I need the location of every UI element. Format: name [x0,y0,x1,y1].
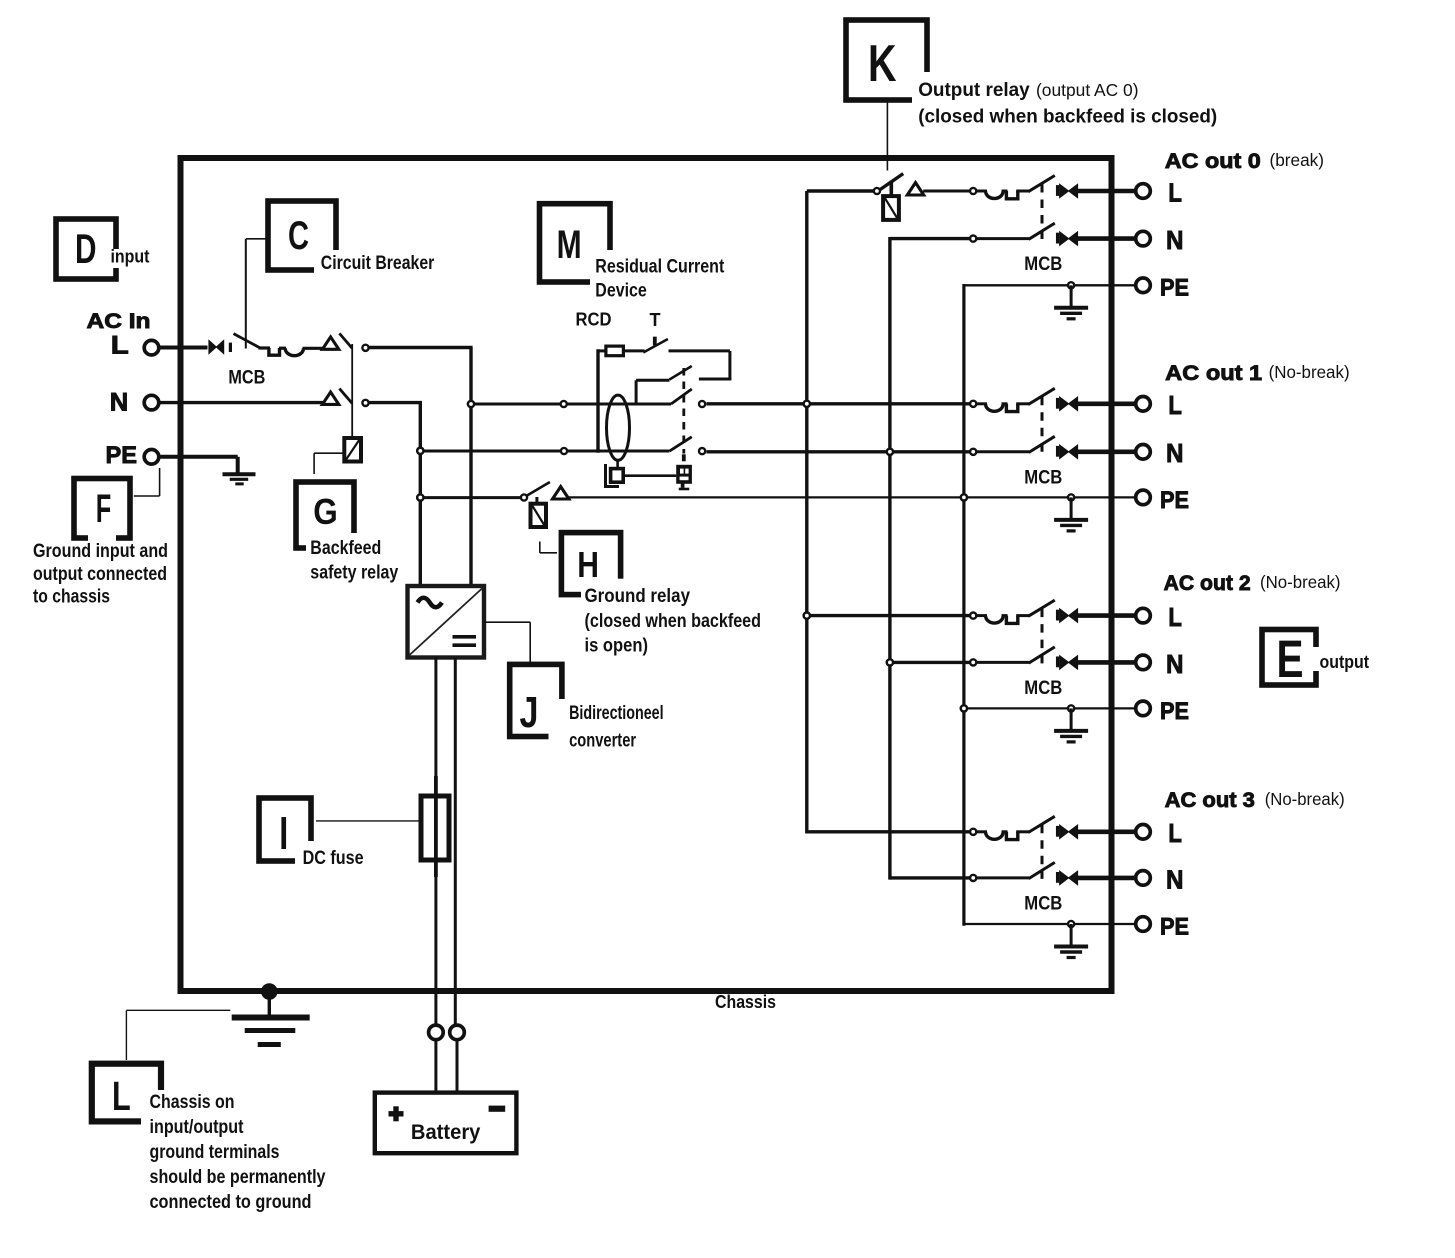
terminal AC out 1 N [1136,445,1151,460]
terminal AC out 3 N [1136,871,1151,886]
callout box E (output) [1262,630,1316,686]
MCB AC out 3 N pole [970,875,976,881]
callout box G (backfeed safety relay) [296,482,354,548]
wire AC-in L terminal to MCB [158,346,208,350]
ground relay triangle [553,487,569,499]
wire battery leads [434,1040,437,1093]
node ground relay pivot [521,494,527,500]
terminal AC out 3 L [1136,825,1151,840]
svg-text:Ground input and: Ground input and [33,540,168,562]
terminal AC out 0 PE [1136,278,1151,293]
wire L drop to converter [469,348,472,587]
terminal AC out 1 L [1136,397,1151,412]
svg-text:AC out 3: AC out 3 [1165,788,1255,812]
svg-text:L: L [1168,602,1182,632]
RCD test button tick [653,337,657,346]
RCD sense element stem [616,460,619,470]
RCD trip solenoid tick top [682,454,686,461]
terminal AC out 2 N [1136,655,1151,670]
callout box J (bidirectional converter) [510,664,562,736]
wire N MCB to down-corner [368,401,422,404]
svg-text:PE: PE [106,442,138,469]
RCD trip solenoid foot [681,483,685,488]
svg-text:AC out 1: AC out 1 [1165,361,1262,385]
svg-text:MCB: MCB [1024,253,1062,275]
terminal AC out 0 N [1136,231,1151,246]
battery box [375,1093,517,1154]
junction L bus / AC out 2 [804,613,810,619]
PE output bus [962,284,965,926]
RCD test resistor [606,346,624,356]
wire RCD L row to contact [471,403,671,406]
junction L drop / RCD feed [468,401,474,407]
battery minus sign [489,1106,506,1112]
node AC out 2 PE earth tap [1068,705,1074,711]
wire L arc to triangle [279,347,286,350]
leader line box K to relay [886,100,888,171]
leader line coil to box H [539,542,541,553]
terminal AC out 0 L [1136,184,1151,199]
battery terminal circle positive [429,1025,444,1040]
svg-text:Residual Current: Residual Current [595,257,725,278]
relay K triangle [907,183,923,195]
svg-text:(No-break): (No-break) [1269,362,1350,382]
wire AC out 2 N feed [890,661,971,664]
MCB input N switch blade [339,389,352,404]
wire DC negative converter to battery [454,658,457,1026]
MCB input mechanical link to backfeed relay [351,344,353,438]
junction L bus / AC out 1 [804,401,810,407]
callout box F (ground input/output to chassis) [74,479,130,539]
backfeed relay coil [344,438,361,462]
MCB AC out 0 L pole [970,188,976,194]
svg-text:Circuit Breaker: Circuit Breaker [321,253,435,274]
svg-text:RCD: RCD [576,310,612,330]
node AC out 1 PE earth tap [1068,494,1074,500]
node RCD N output [699,448,705,454]
svg-text:G: G [313,491,338,532]
svg-text:L: L [1168,818,1182,848]
RCD mechanical trip link (dashed) [682,368,685,454]
chassis earth stem [268,992,271,1018]
L output bus [805,191,808,834]
terminal AC out 2 PE [1136,701,1151,716]
junction node L bus / AC out 2 row [804,613,810,619]
svg-text:Output relay: Output relay [918,80,1030,101]
svg-text:converter: converter [569,731,636,752]
svg-text:L: L [112,1073,131,1119]
junction PE bus / AC out 1 [961,494,967,500]
MCB input isolator bowtie on L [209,340,224,353]
wire AC out 2 PE feed [964,707,1135,709]
terminal PE input [144,450,159,465]
MCB AC out 1 L pole [970,401,976,407]
svg-text:H: H [577,544,599,585]
wire AC-in PE terminal [158,455,238,459]
terminal AC out 3 PE [1136,917,1151,932]
MCB AC out 2 L pole [970,613,976,619]
svg-text:E: E [1277,630,1304,689]
junction node N drop / RCD N row [417,448,423,454]
leader line PE to box F [159,468,161,496]
leader line box L to chassis earth [126,1009,230,1011]
MCB input bowtie end bar [229,343,232,352]
chassis earth symbol [232,1015,310,1021]
svg-text:DC fuse: DC fuse [303,848,364,869]
DC fuse body [434,776,438,877]
ground symbol at PE input [223,472,256,476]
svg-text:L: L [111,332,129,360]
wire AC-in N terminal to MCB [158,401,325,404]
wire AC out 2 L feed [807,614,971,617]
wire ground relay row from N drop [420,496,521,499]
junction node PE bus / AC out 1 row [961,494,967,500]
wire AC out 1 L feed [707,402,972,405]
junction N drop / ground relay feed [417,495,423,501]
MCB AC out 1 N pole [970,449,976,455]
earth symbol AC out 3 [1070,924,1073,946]
leader line coil to box G [314,452,343,454]
svg-text:Bidirectioneel: Bidirectioneel [569,703,664,724]
svg-text:AC out 0: AC out 0 [1165,149,1261,173]
junction node N bus / AC out 1 row [887,449,893,455]
svg-text:(No-break): (No-break) [1260,572,1341,592]
junction on RCD L row [561,401,567,407]
earth symbol AC out 0 [1070,285,1073,307]
svg-text:PE: PE [1160,913,1189,940]
wire PE net ground relay to PE bus [569,496,1135,498]
junction N bus / AC out 1 [887,449,893,455]
wire L bus corner to relay K [807,189,874,192]
MCB input L switch blade [234,334,261,349]
ground relay coil [531,504,547,527]
svg-text:input/output: input/output [150,1116,244,1138]
wire relay K to AC0 MCB [923,190,970,193]
leader line box I to fuse [316,820,419,822]
battery plus sign [389,1111,404,1116]
RCD auxiliary contact blade [670,366,692,380]
wire RCD N row to contact [420,450,669,453]
node AC out 0 PE earth tap [1068,282,1074,288]
svg-text:connected to ground: connected to ground [150,1191,312,1213]
callout box C (circuit breaker) [268,201,336,270]
svg-text:Ground relay: Ground relay [585,586,691,607]
svg-text:output connected: output connected [33,563,167,585]
svg-text:N: N [1166,864,1184,894]
wire N drop to converter [419,403,422,586]
svg-text:MCB: MCB [1024,892,1062,914]
RCD sense toroid [607,395,630,460]
terminal L input [144,340,159,355]
terminal N input [144,395,159,410]
svg-text:T: T [650,310,661,330]
junction N drop / RCD N feed [417,448,423,454]
junction N bus / AC out 2 [887,659,893,665]
callout box L (chassis grounding note) [92,1064,161,1122]
svg-text:Chassis on: Chassis on [150,1091,235,1113]
svg-text:input: input [111,247,150,267]
svg-text:MCB: MCB [1024,677,1062,699]
chassis ground bonding dot [262,984,278,1000]
wire L between notch segments [259,346,271,349]
MCB AC out 2 mechanical link (dashed) [1041,609,1044,664]
svg-text:MCB: MCB [1024,466,1062,488]
relay K armature bar [890,182,894,197]
RCD sense element bracket [606,464,620,487]
svg-text:L: L [1168,390,1182,420]
wire sense element to trip solenoid [623,474,676,477]
RCD auxiliary contact stub [636,379,669,382]
svg-text:(closed when backfeed: (closed when backfeed [585,611,762,632]
wire AC out 0 N feed [890,237,971,240]
battery terminal circle negative [450,1025,465,1040]
svg-text:N: N [1166,225,1184,255]
RCD sense element box [611,469,624,483]
svg-text:should be permanently: should be permanently [150,1166,326,1188]
wire AC out 0 PE feed [964,284,1135,286]
svg-text:N: N [1166,649,1184,679]
MCB input triangle on N [322,392,338,404]
node RCD L output [699,401,705,407]
MCB input magnetic coil arc on L [285,348,303,355]
MCB AC out 0 N pole [970,236,976,242]
terminal AC out 2 L [1136,608,1151,623]
RCD main contact blade N [670,437,692,451]
junction node N bus / AC out 2 row [887,659,893,665]
earth symbol AC out 1 [1070,497,1073,519]
svg-text:to chassis: to chassis [33,586,110,608]
N output bus [888,237,891,880]
svg-text:(output AC 0): (output AC 0) [1036,80,1139,100]
junction on RCD N row [561,448,567,454]
junction node PE bus / AC out 2 row [961,705,967,711]
svg-text:is open): is open) [585,636,649,657]
node N after input MCB [362,400,368,406]
callout box K (output relay) [846,20,927,100]
RCD trip solenoid body [676,465,692,484]
bidirectional converter box [408,586,485,658]
wire AC out 3 L feed [807,830,971,833]
svg-text:C: C [288,214,309,258]
svg-text:MCB: MCB [228,367,265,389]
MCB AC out 0 mechanical link (dashed) [1041,184,1044,240]
junction node N drop / ground relay row [417,494,423,500]
wire AC out 3 PE feed [964,923,1135,925]
relay K coil [883,196,899,220]
junction PE bus / AC out 2 [961,705,967,711]
chassis enclosure box [181,158,1112,991]
callout box I (DC fuse) [259,798,311,861]
relay K blade [880,174,903,190]
terminal AC out 1 PE [1136,490,1151,505]
junction node L drop / RCD L row [468,401,474,407]
svg-text:N: N [110,389,129,417]
svg-text:M: M [557,223,582,267]
svg-text:K: K [868,35,897,93]
svg-text:safety relay: safety relay [310,563,398,584]
svg-text:Device: Device [595,281,647,302]
svg-text:ground terminals: ground terminals [150,1141,280,1163]
MCB input L second blade [339,333,352,348]
svg-text:Chassis: Chassis [715,991,776,1012]
svg-text:Battery: Battery [411,1121,481,1144]
svg-text:(No-break): (No-break) [1265,789,1345,809]
svg-text:output: output [1320,652,1370,672]
earth symbol AC out 2 [1070,708,1073,730]
svg-text:Backfeed: Backfeed [310,538,381,559]
wire resistor to test switch [623,349,644,352]
wire DC positive converter to battery [434,658,437,1026]
leader line box C to MCB [246,238,268,240]
MCB input thermal notch on L [269,348,280,355]
svg-text:PE: PE [1160,275,1189,302]
svg-text:(break): (break) [1270,150,1325,170]
svg-text:PE: PE [1160,487,1189,514]
leader line converter to box J [484,621,530,623]
svg-text:N: N [1166,438,1184,468]
callout box H (ground relay) [561,533,620,595]
svg-text:AC In: AC In [87,309,151,333]
wire AC out 3 N feed [890,876,971,879]
junction node L bus / AC out 1 row [804,401,810,407]
callout box D (input) [56,219,116,279]
svg-text:I: I [279,807,288,859]
wire test switch over the top [669,349,730,352]
ground relay armature tick [535,497,538,505]
MCB AC out 1 mechanical link (dashed) [1041,397,1044,453]
MCB AC out 3 L pole [970,829,976,835]
svg-text:(closed when backfeed is close: (closed when backfeed is closed) [918,107,1217,128]
RCD test circuit left riser [596,349,599,452]
wire L MCB to down-corner [368,346,472,349]
svg-text:PE: PE [1160,698,1189,725]
wire AC out 1 N feed [707,450,972,453]
svg-text:D: D [75,225,97,272]
svg-text:L: L [1168,177,1182,207]
relay K pivot [874,188,880,194]
ground relay blade [527,482,550,496]
svg-text:F: F [96,487,112,531]
svg-text:AC out 2: AC out 2 [1164,571,1251,595]
node AC out 3 PE earth tap [1068,921,1074,927]
RCD test switch blade [643,339,668,353]
MCB AC out 2 N pole [970,659,976,665]
callout box M (residual current device) [540,204,611,282]
node L after input MCB [362,345,368,351]
svg-text:J: J [520,688,539,737]
MCB AC out 3 mechanical link (dashed) [1041,825,1044,879]
MCB input triangle on L [322,337,338,349]
RCD main contact blade L [671,389,692,404]
